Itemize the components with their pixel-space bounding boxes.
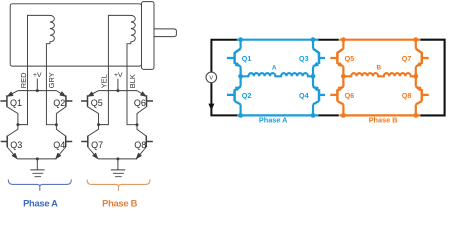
- transistor Q6: [137, 91, 153, 125]
- node A top-left: [238, 37, 243, 42]
- node A bottom-left: [238, 113, 243, 118]
- transistor Q2: [56, 91, 72, 125]
- inductor A: [241, 73, 313, 76]
- motor end flange: [142, 2, 155, 70]
- wire +V rail B: [99, 79, 137, 91]
- svg-text:Q7: Q7: [402, 54, 412, 63]
- winding L-A: [28, 15, 55, 66]
- svg-text:YEL: YEL: [100, 74, 109, 88]
- svg-text:Q8: Q8: [134, 140, 146, 150]
- transistor Q7: [81, 125, 98, 159]
- brace Phase A: [8, 179, 71, 190]
- transistor Q4: [56, 125, 73, 159]
- svg-text:Q7: Q7: [91, 140, 103, 150]
- node BLK out: [136, 123, 139, 126]
- node B top-left: [341, 37, 346, 42]
- node B mid-left: [341, 74, 346, 79]
- transistor Q4 right: [313, 87, 325, 105]
- wire right rail A: [312, 40, 314, 116]
- svg-text:Q2: Q2: [242, 91, 252, 100]
- brace Phase B: [87, 179, 150, 190]
- wire BLK: [127, 66, 137, 125]
- node A top-right: [311, 37, 316, 42]
- wire black top mid: [318, 39, 339, 41]
- node B top-right: [413, 37, 418, 42]
- Phase A bridge (blue): [227, 40, 325, 116]
- svg-text:Q3: Q3: [10, 140, 22, 150]
- wire GRY: [46, 66, 56, 125]
- svg-text:Q6: Q6: [134, 98, 146, 108]
- node A mid-right: [311, 74, 316, 79]
- wire top rail A: [237, 39, 319, 41]
- wire top rail B: [339, 39, 420, 41]
- wire RED: [18, 66, 28, 125]
- transistor Q1 right: [227, 49, 241, 67]
- wire black right loop: [420, 40, 444, 116]
- svg-text:Q4: Q4: [53, 140, 65, 150]
- node ground B: [116, 157, 119, 160]
- svg-text:Phase B: Phase B: [369, 116, 398, 125]
- svg-text:A: A: [272, 65, 277, 72]
- wire left rail A: [240, 40, 242, 116]
- svg-text:Q5: Q5: [345, 54, 355, 63]
- current arrow: [208, 104, 214, 111]
- wire black left + top-left: [211, 40, 237, 116]
- svg-text:B: B: [376, 65, 381, 72]
- wire bottom rail A: [17, 158, 56, 160]
- svg-text:GRY: GRY: [47, 72, 56, 88]
- wire YEL: [99, 66, 109, 125]
- svg-text:Q1: Q1: [242, 54, 252, 63]
- svg-text:RED: RED: [19, 73, 28, 89]
- svg-text:Phase A: Phase A: [23, 197, 58, 208]
- svg-text:V: V: [209, 76, 213, 82]
- node B bottom-right: [413, 113, 418, 118]
- svg-text:Q6: Q6: [345, 91, 355, 100]
- transistor Q3 right: [313, 49, 325, 67]
- transistor Q2 right: [227, 87, 241, 105]
- wire black bottom mid: [318, 114, 339, 116]
- transistor Q5 right: [330, 49, 343, 67]
- node +V B: [116, 89, 119, 92]
- motor body: [10, 4, 141, 66]
- svg-text:BLK: BLK: [128, 74, 137, 88]
- svg-text:+V: +V: [114, 72, 123, 79]
- svg-text:Q3: Q3: [299, 54, 309, 63]
- node YEL out: [97, 123, 100, 126]
- transistor Q1: [0, 91, 18, 125]
- svg-text:+V: +V: [33, 72, 42, 79]
- wire left rail B: [342, 40, 344, 116]
- ground B: [111, 159, 125, 177]
- Phase B bridge (orange): [330, 40, 428, 116]
- wire bottom rail B: [339, 114, 420, 116]
- wire bottom rail B: [98, 158, 137, 160]
- svg-text:Q5: Q5: [91, 98, 103, 108]
- wire bottom rail A: [237, 114, 318, 116]
- node ground A: [36, 157, 39, 160]
- svg-text:Q2: Q2: [53, 98, 65, 108]
- transistor Q7 right: [416, 49, 429, 67]
- transistor Q8 right: [416, 87, 429, 105]
- node B bottom-left: [341, 113, 346, 118]
- wire right rail B: [415, 40, 417, 116]
- node B mid-right: [413, 74, 418, 79]
- transistor Q6 right: [330, 87, 343, 105]
- node A mid-left: [238, 74, 243, 79]
- svg-text:Phase B: Phase B: [102, 197, 137, 208]
- svg-text:Q8: Q8: [402, 91, 412, 100]
- node A bottom-right: [311, 113, 316, 118]
- node +V A: [36, 89, 39, 92]
- inductor B: [343, 73, 415, 76]
- winding L-B: [108, 15, 135, 66]
- svg-text:Q4: Q4: [299, 91, 309, 100]
- node GRY out: [55, 123, 58, 126]
- motor shaft: [154, 29, 176, 37]
- svg-text:Q1: Q1: [10, 98, 22, 108]
- wire +V rail A: [18, 79, 56, 91]
- ground A: [30, 159, 44, 177]
- node RED out: [16, 123, 19, 126]
- transistor Q5: [81, 91, 99, 125]
- transistor Q8: [136, 125, 153, 159]
- svg-text:Phase A: Phase A: [259, 116, 288, 125]
- transistor Q3: [1, 125, 18, 159]
- source V: [206, 72, 217, 83]
